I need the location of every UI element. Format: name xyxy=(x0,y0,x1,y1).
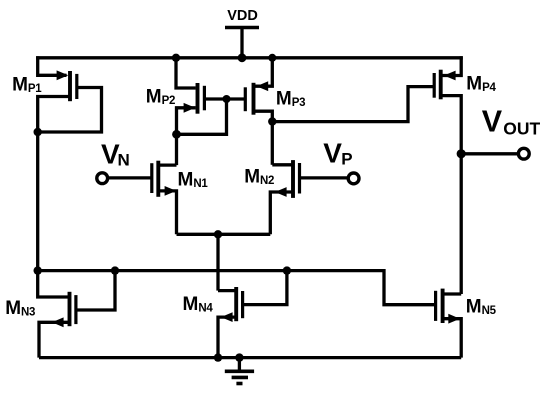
MP4 source arrow xyxy=(444,71,456,81)
node bias MN3 gate junction xyxy=(111,266,119,274)
wire MP3 drain lead xyxy=(254,111,273,121)
MP1 channel bar xyxy=(68,71,72,101)
node tail junction xyxy=(214,230,222,238)
wire MP1 source lead from rail xyxy=(38,56,67,75)
node VDD rail dot VDD stub xyxy=(238,53,247,62)
node VOUT junction xyxy=(457,149,466,158)
wire top VDD rail xyxy=(36,56,463,59)
VDD supply bar xyxy=(225,26,259,30)
wire ground stub xyxy=(238,358,241,370)
terminal VOUT xyxy=(518,148,529,159)
MP2 gate bar xyxy=(203,86,206,111)
MN2 source arrow xyxy=(275,187,287,197)
wire VOUT node down to MN5 drain xyxy=(460,154,463,294)
svg-text:VDD: VDD xyxy=(227,8,258,24)
wire MP1 drain lead xyxy=(38,97,70,133)
MP3 source arrow xyxy=(257,81,269,91)
wire VN to MN1 gate xyxy=(108,176,152,179)
MN1 gate bar xyxy=(150,163,153,193)
transistor MN1 xyxy=(152,161,177,235)
wire VP to MN2 gate xyxy=(300,176,348,179)
wire gate node down to diode node xyxy=(177,99,227,134)
node diode junction MP2 drain xyxy=(172,130,181,139)
MN4 channel bar xyxy=(234,287,238,321)
ground xyxy=(225,358,254,384)
wire MN4 drain lead xyxy=(218,289,236,292)
MN5 gate bar xyxy=(434,291,437,321)
wire MN2 source lead xyxy=(270,192,293,234)
transistor MN5 xyxy=(436,289,462,358)
wire MN4 source lead xyxy=(218,317,236,358)
wire MP2 source lead from rail xyxy=(176,56,196,88)
wire MP2 drain lead xyxy=(177,108,196,135)
node ground MN4 source junction xyxy=(214,353,222,361)
MP3 channel bar xyxy=(252,83,256,115)
MN5 source arrow xyxy=(448,314,460,324)
transistor MN3 xyxy=(38,271,115,358)
wire MN5 source lead xyxy=(443,319,462,358)
MN3 source arrow xyxy=(52,317,64,327)
MN5 channel bar xyxy=(441,289,445,323)
transistor MP3 xyxy=(245,56,272,121)
MN3 channel bar xyxy=(68,292,72,326)
wire MP3 drain down to MN2 drain xyxy=(271,122,274,165)
wire MN2 drain lead xyxy=(272,163,293,166)
wire VDD stub xyxy=(240,28,243,58)
svg-text:N: N xyxy=(118,151,130,170)
wire MP4 drain lead xyxy=(441,96,462,154)
MN2 channel bar xyxy=(291,160,295,198)
wire MN3 source lead xyxy=(39,322,70,357)
wire MN3 drain lead xyxy=(38,271,70,297)
transistor MN2 xyxy=(270,160,299,234)
MN4 gate bar xyxy=(241,291,244,318)
MP4 channel bar xyxy=(439,70,443,100)
wire MN1 drain lead xyxy=(158,163,176,166)
ground bar 2 xyxy=(232,376,248,380)
ground bar 1 xyxy=(225,369,254,373)
transistor MP2 xyxy=(176,56,204,134)
wire MP1 gate to drain (diode connection) xyxy=(38,88,102,133)
wire bias line xyxy=(38,271,436,305)
wire MN1 source lead xyxy=(158,191,176,234)
svg-text:P: P xyxy=(341,149,352,168)
wire MP2-MP3 gate connection xyxy=(204,97,245,100)
MN4 source arrow xyxy=(221,312,233,322)
transistor MP1 xyxy=(34,56,102,136)
wire MN4 gate lead to bias xyxy=(243,271,287,305)
MN2 gate bar xyxy=(298,163,301,194)
MN3 gate bar xyxy=(74,295,77,324)
node bias MN4 gate junction xyxy=(283,266,291,274)
node bias left rail junction xyxy=(34,266,42,274)
MP1 gate bar xyxy=(75,74,78,99)
wire tail down to MN4 drain xyxy=(216,234,219,290)
ground bar 3 xyxy=(236,382,242,386)
transistor MN4 xyxy=(218,271,287,358)
wire MN3 gate lead to bias xyxy=(76,271,115,310)
MP2 drain arrow xyxy=(184,103,196,113)
node VDD rail dot MP2 xyxy=(172,54,180,62)
svg-text:V: V xyxy=(482,105,503,139)
wire MN5 drain lead xyxy=(443,292,462,295)
svg-text:V: V xyxy=(323,138,342,169)
MN1 source arrow xyxy=(165,186,177,196)
wire ground rail xyxy=(39,356,461,359)
node VDD rail dot MP3 xyxy=(268,54,276,62)
wire tail of differential pair xyxy=(177,233,271,236)
MP1 source arrow xyxy=(57,70,69,80)
node MP2/MP3 gate junction xyxy=(223,95,231,103)
wire left rail MP1 drain to bias line xyxy=(36,132,39,271)
wire MP3 source lead to rail xyxy=(254,56,273,86)
node MP1 gate-drain junction xyxy=(34,128,42,136)
MP3 gate bar xyxy=(244,87,247,111)
wire VOUT xyxy=(461,152,517,155)
wire MP4 gate lead to MP3 drain node xyxy=(272,87,434,122)
node ground stub junction xyxy=(235,353,243,361)
MP4 gate bar xyxy=(433,73,436,98)
node MP3 drain junction xyxy=(268,117,276,125)
wire diode node down to MN1 drain xyxy=(175,134,178,165)
MP2 channel bar xyxy=(196,83,200,114)
transistor MP4 xyxy=(272,56,461,154)
svg-text:OUT: OUT xyxy=(503,118,540,138)
wire MP4 source lead to rail xyxy=(441,56,462,75)
terminal VP xyxy=(348,173,359,184)
terminal VN xyxy=(97,173,108,184)
MN1 channel bar xyxy=(156,161,160,197)
